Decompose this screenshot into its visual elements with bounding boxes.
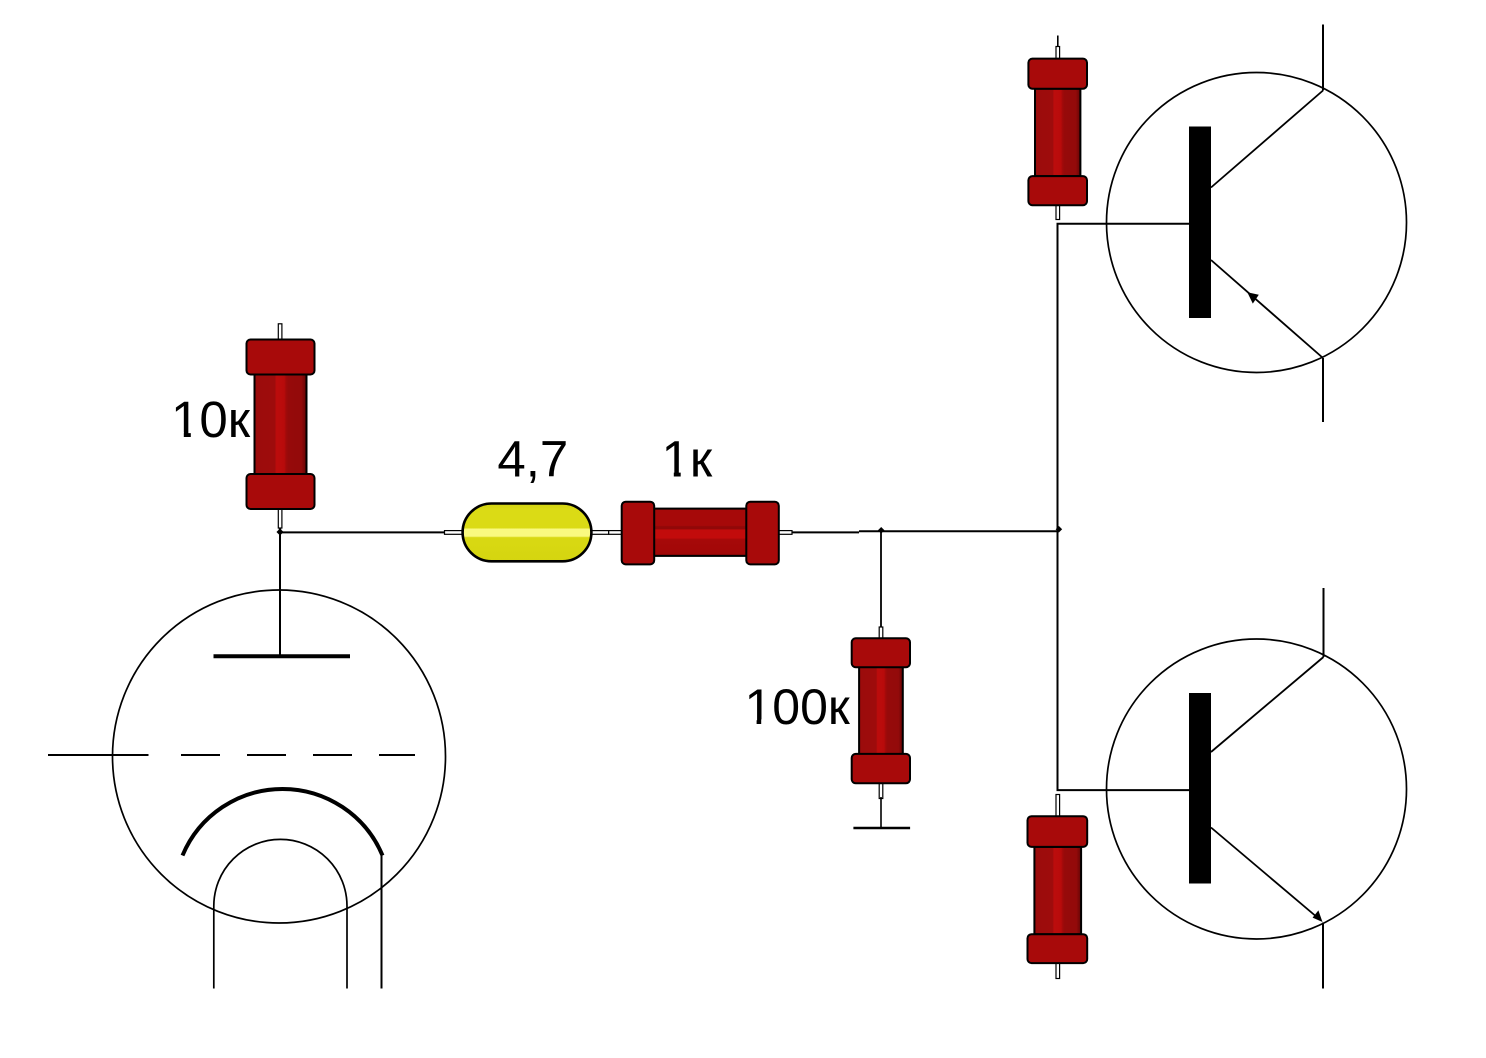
resistor R3 (100к) to ground [852,627,910,799]
transistor Q2 collector lead up [1323,588,1325,657]
tube V1 grid lead out left [48,754,149,756]
capacitor C1 (4,7) coupling [445,504,609,562]
wire branch down to 100k [880,532,882,628]
resistor R4 (top right) [1028,36,1087,220]
transistor Q1 base bar [1189,127,1211,319]
svg-text:10к: 10к [171,391,251,448]
transistor Q1 emitter diagonal [1211,260,1323,358]
tube V1 cathode arc [183,789,383,856]
wire base of Q2 [1057,789,1190,791]
transistor Q1 (PNP upper) envelope [1107,73,1407,373]
wire main horizontal net from plate node to output node [280,531,859,533]
transistor Q2 emitter arrowhead (NPN, points out) [1313,910,1323,922]
node B junction at 100k tap [878,527,885,534]
wire main horizontal net right part to output node [859,530,1058,532]
tube V1 anode plate bar [214,654,351,658]
svg-text:4,7: 4,7 [497,431,568,488]
transistor Q1 emitter lead down [1322,358,1324,422]
transistor Q2 (NPN lower) envelope [1107,639,1407,939]
wire from R3 to ground [880,797,882,828]
wire vertical bus on right (bases) [1057,224,1059,790]
wire base of Q1 [1057,223,1190,225]
svg-text:100к: 100к [745,679,851,735]
transistor Q2 emitter diagonal [1211,828,1318,919]
resistor R2 (1к) series [609,502,792,565]
resistor R1 (10к) anode load [247,324,315,528]
ground bar [853,827,910,829]
node C junction at output bus [1056,526,1063,533]
wire anode lead from node to tube plate [279,532,281,656]
tube V1 grid dashed line [181,754,415,756]
tube V1 heater loop and legs [214,839,347,988]
transistor Q1 collector lead up [1322,25,1324,91]
resistor R5 (bottom right) [1028,795,1088,979]
transistor Q2 collector diagonal [1211,657,1324,752]
vacuum tube V1 triode envelope [113,590,446,923]
transistor Q1 collector diagonal [1211,91,1323,188]
svg-text:1к: 1к [662,431,713,488]
wire stub R1 to node A [279,526,281,532]
transistor Q2 emitter lead down [1322,923,1324,989]
transistor Q1 emitter arrowhead (PNP, points to base) [1247,292,1259,303]
node A junction at plate node [276,528,283,535]
transistor Q2 base bar [1189,693,1211,884]
tube V1 cathode lead down [381,856,383,989]
